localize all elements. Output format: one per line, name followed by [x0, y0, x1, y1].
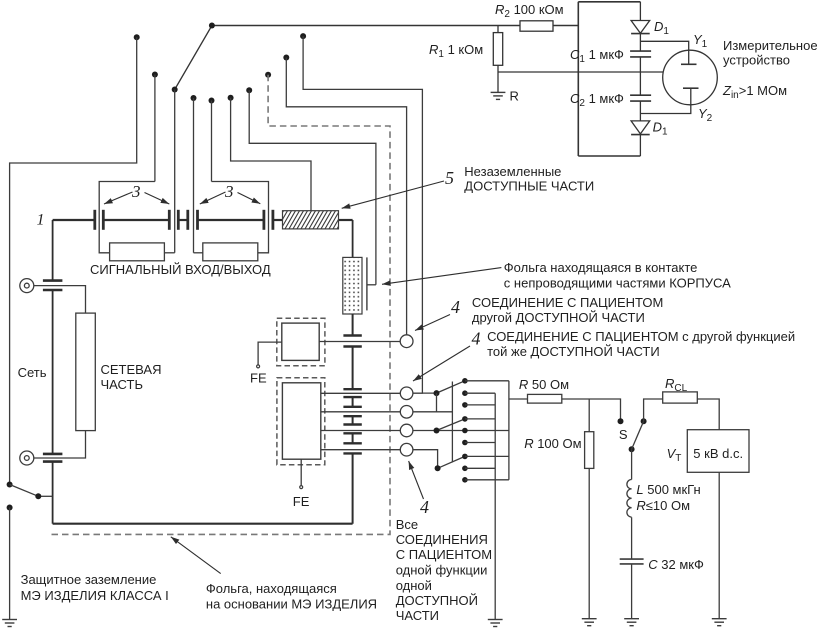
capacitor mains feedthrough upper	[43, 279, 63, 282]
node dotA + wire to patient circle 2	[300, 33, 306, 39]
label foil on base + arrow	[171, 537, 221, 574]
svg-text:5: 5	[445, 168, 454, 188]
wire hatched box to foil chain	[352, 220, 354, 257]
resistor RCL	[663, 392, 698, 403]
ground R	[491, 92, 506, 99]
component applied part big dashed	[277, 378, 325, 465]
svg-text:3: 3	[224, 182, 234, 201]
svg-text:одной: одной	[396, 578, 432, 593]
component box mains part	[76, 313, 96, 431]
node dotB + wire to patient circle 1	[283, 55, 289, 61]
wire loop bottom	[578, 155, 640, 157]
svg-text:Незаземленные: Незаземленные	[464, 164, 561, 179]
wire RCL to VT	[697, 399, 719, 430]
ground R100	[582, 619, 597, 626]
svg-text:4: 4	[451, 297, 460, 317]
svg-text:5 кВ d.c.: 5 кВ d.c.	[693, 446, 743, 461]
wire bus c	[508, 381, 510, 480]
svg-text:СИГНАЛЬНЫЙ ВХОД/ВЫХОД: СИГНАЛЬНЫЙ ВХОД/ВЫХОД	[90, 262, 271, 277]
wire circle5 to blade B3	[413, 450, 438, 469]
svg-text:устройство: устройство	[723, 53, 790, 68]
wire mid horizontal to meter	[498, 71, 663, 73]
node dotE + wire to hatched box	[228, 95, 234, 101]
capacitor chain vertical with plate pairs	[343, 314, 361, 524]
node dotD + wire to foil plate	[246, 87, 252, 93]
svg-text:S: S	[619, 427, 628, 442]
svg-text:FE: FE	[250, 371, 267, 386]
svg-text:L 500 мкГн: L 500 мкГн	[636, 482, 700, 497]
wire signal line segments	[53, 219, 95, 221]
wire bracket unit2	[212, 182, 269, 253]
node dot1 + wire to earth switch	[134, 34, 140, 40]
capacitor C2	[630, 94, 651, 96]
op meter circle measuring device	[663, 50, 718, 105]
capacitor foil box stippled	[343, 257, 362, 314]
svg-text:ЧАСТИ: ЧАСТИ	[396, 608, 439, 623]
switch earth blade and contacts	[7, 482, 13, 488]
capacitor C32	[620, 558, 644, 560]
component applied part small dashed	[277, 318, 325, 366]
svg-text:СОЕДИНЕНИЯ: СОЕДИНЕНИЯ	[396, 532, 488, 547]
svg-text:ЧАСТЬ: ЧАСТЬ	[101, 377, 143, 392]
node selector row dots	[462, 378, 468, 483]
svg-text:на основании МЭ ИЗДЕЛИЯ: на основании МЭ ИЗДЕЛИЯ	[206, 597, 377, 612]
diode D1 top	[631, 21, 650, 34]
svg-text:с непроводящими частями КОРПУС: с непроводящими частями КОРПУСА	[504, 276, 731, 291]
wire bus b to ground	[494, 393, 496, 619]
wire R100 to ground	[588, 468, 590, 618]
wire VT to ground	[718, 472, 720, 618]
component box VT source	[687, 430, 749, 473]
svg-text:Измерительное: Измерительное	[723, 38, 818, 53]
wire R50 to S	[562, 399, 621, 419]
switch blade B3	[438, 456, 465, 468]
node mains terminal lower	[20, 451, 34, 465]
svg-text:R: R	[510, 89, 519, 104]
component box unit1	[110, 243, 165, 261]
ground bus b	[488, 620, 503, 627]
wire selector rows	[465, 380, 509, 382]
wire right chain top	[639, 2, 641, 21]
resistor R50	[528, 394, 562, 403]
svg-text:одной функции: одной функции	[396, 563, 488, 578]
ground VT	[712, 619, 727, 626]
svg-text:МЭ ИЗДЕЛИЯ КЛАССА I: МЭ ИЗДЕЛИЯ КЛАССА I	[21, 588, 169, 603]
wire bracket unit1	[99, 182, 155, 253]
node patient connection circles	[400, 335, 413, 456]
svg-text:4: 4	[420, 497, 429, 517]
capacitor foil counter plate	[366, 257, 368, 310]
svg-text:4: 4	[472, 329, 481, 349]
node dot4 + wire through cap gap to box2	[191, 95, 197, 101]
wire bus a	[451, 382, 453, 463]
wire selector diagonal to node bus	[175, 26, 212, 90]
wire circle4 row5 full line	[413, 430, 509, 432]
Y2 plate	[690, 88, 692, 104]
svg-text:Сеть: Сеть	[18, 365, 47, 380]
wire bus c to R50	[509, 398, 528, 400]
wire small box to FE	[258, 342, 282, 365]
wire enclosure bottom	[53, 523, 353, 525]
svg-text:ДОСТУПНЫЕ ЧАСТИ: ДОСТУПНЫЕ ЧАСТИ	[464, 179, 594, 194]
wire circle2 to blade B1	[413, 392, 437, 394]
svg-text:Фольга, находящаяся: Фольга, находящаяся	[206, 581, 337, 596]
switch blade B1	[437, 381, 465, 393]
wire foil plate connection	[367, 284, 376, 286]
wire Y2 branch	[640, 105, 690, 114]
wire L to C32	[631, 517, 633, 559]
wire to protective earth	[9, 508, 11, 620]
wire enclosure left wall	[52, 220, 54, 281]
wire C32 to ground	[631, 564, 633, 619]
svg-text:другой ДОСТУПНОЙ ЧАСТИ: другой ДОСТУПНОЙ ЧАСТИ	[472, 310, 645, 325]
svg-text:3: 3	[131, 182, 141, 201]
wire R100 tap	[588, 399, 590, 432]
capacitor bars item 3	[95, 210, 273, 230]
wire loop top	[578, 1, 640, 3]
switch S contacts and blade	[618, 418, 624, 424]
wire Y1 branch	[640, 41, 688, 50]
svg-text:Фольга находящаяся в контакте: Фольга находящаяся в контакте	[504, 260, 698, 275]
capacitor mains feedthrough lower	[43, 453, 63, 456]
node mains terminal upper	[20, 279, 34, 293]
node dot2 + wire to bracket1	[152, 72, 158, 78]
svg-text:ДОСТУПНОЙ: ДОСТУПНОЙ	[396, 593, 478, 608]
node dot5 + wire to bracket2	[209, 98, 215, 104]
svg-text:Защитное заземление: Защитное заземление	[21, 572, 157, 587]
switch blade B2	[437, 419, 465, 431]
svg-text:R 100 Ом: R 100 Ом	[524, 436, 581, 451]
wire B1 down to circle3 line	[436, 393, 438, 412]
diode D1 bottom	[631, 121, 650, 134]
wire loop left vertical	[577, 2, 579, 156]
capacitor C1	[630, 50, 651, 52]
svg-text:C 32 мкФ: C 32 мкФ	[648, 557, 704, 572]
wire C1 to mid	[639, 57, 641, 95]
svg-text:1: 1	[37, 212, 45, 229]
Y1 plate	[688, 51, 690, 65]
node dotC + dashed wire foil under equipment	[265, 72, 271, 78]
wire D1b to loop bottom	[639, 135, 641, 156]
wire S blade to inductor	[631, 449, 633, 479]
svg-text:СОЕДИНЕНИЕ С ПАЦИЕНТОМ: СОЕДИНЕНИЕ С ПАЦИЕНТОМ	[472, 295, 663, 310]
wire circle3 to bus a	[413, 411, 452, 413]
wire patient leads from big box	[321, 393, 401, 449]
svg-text:Все: Все	[396, 517, 418, 532]
svg-text:FE: FE	[293, 494, 310, 509]
svg-text:той же ДОСТУПНОЙ ЧАСТИ: той же ДОСТУПНОЙ ЧАСТИ	[487, 344, 660, 359]
wire box2 to dot4 riser	[194, 252, 203, 254]
resistor R2	[520, 21, 553, 31]
wire main bus	[212, 25, 520, 27]
wire R1 stub	[497, 26, 499, 33]
ground C32	[624, 619, 639, 626]
wire D1 to C1	[639, 34, 641, 52]
wire R1 to ground	[497, 65, 499, 92]
ground protective earth	[2, 620, 17, 627]
wire right contact to RCL	[644, 399, 663, 421]
svg-text:R 50 Ом: R 50 Ом	[519, 377, 569, 392]
wire lower terminal to mains box	[34, 431, 86, 458]
wire dot3 down through cap gap to box1	[174, 90, 176, 253]
resistor R1	[493, 33, 502, 66]
component box unit2	[203, 243, 258, 261]
node junction dot on bus	[209, 23, 215, 29]
resistor R100	[585, 432, 594, 469]
wire big box to FE	[300, 459, 302, 485]
node dot3 top terminal	[172, 87, 178, 93]
wire C2 down	[639, 101, 641, 121]
svg-text:С ПАЦИЕНТОМ: С ПАЦИЕНТОМ	[396, 547, 492, 562]
svg-text:R≤10 Ом: R≤10 Ом	[636, 498, 690, 513]
label foil in contact with housing + arrow	[382, 268, 501, 285]
wire terminal to mains box	[34, 286, 86, 314]
wire small box to chain	[319, 341, 400, 343]
svg-text:СЕТЕВАЯ: СЕТЕВАЯ	[101, 362, 162, 377]
inductor L coils	[627, 480, 632, 518]
svg-text:СОЕДИНЕНИЕ С ПАЦИЕНТОМ с друго: СОЕДИНЕНИЕ С ПАЦИЕНТОМ с другой функцией	[487, 329, 795, 344]
wire box1 to dot3 riser	[164, 252, 174, 254]
